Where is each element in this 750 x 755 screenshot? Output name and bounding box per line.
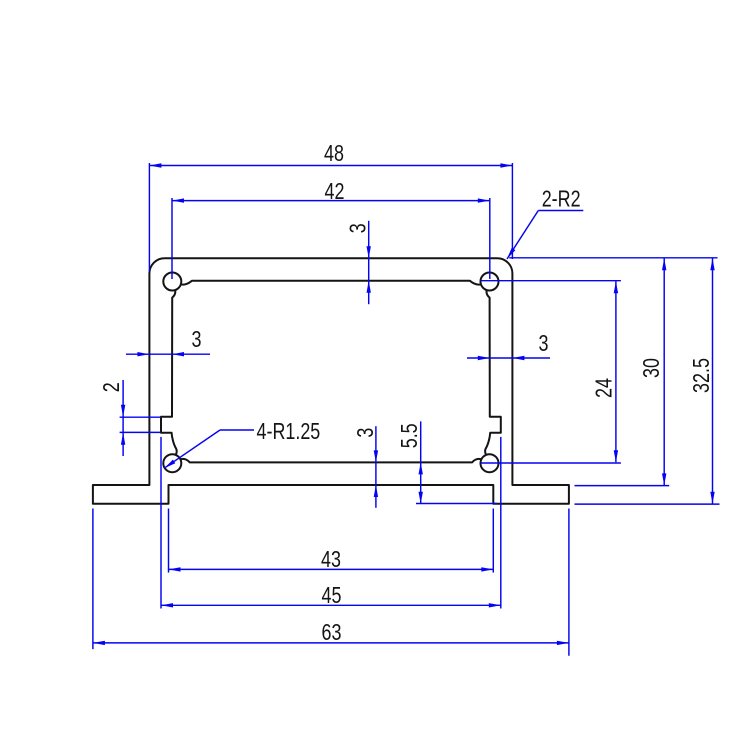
cavity top inner edge (181, 281, 481, 285)
leader 4-R1.25 boss radius callout (164, 419, 320, 468)
svg-text:48: 48 (324, 141, 344, 167)
dimension 3 right wall thickness (467, 331, 550, 360)
dimension 42 inner cavity width (172, 179, 490, 279)
dimension 45 groove span width (161, 437, 501, 609)
left inner wall with 2mm groove (161, 290, 177, 455)
right inner wall with 2mm groove (485, 290, 501, 455)
screw boss R1.25 top-right (481, 273, 499, 291)
dimension 48 top outer width (149, 141, 512, 271)
dimension 2 groove height (99, 380, 160, 456)
dimension 30 box height (509, 258, 717, 486)
dimension 63 overall width (93, 509, 569, 656)
svg-text:43: 43 (321, 547, 341, 573)
svg-text:4-R1.25: 4-R1.25 (257, 419, 321, 445)
leader 2-R2 corner radius callout (507, 186, 583, 259)
dimension 3 left wall thickness (126, 327, 210, 356)
profile outer boundary (48 wide box with 63 wide base flange) (93, 258, 569, 504)
dimension 5.5 floor height (397, 421, 497, 503)
svg-text:32.5: 32.5 (689, 358, 715, 393)
screw boss R1.25 bottom-right (481, 454, 499, 472)
screw boss R1.25 bottom-left (163, 454, 181, 472)
svg-text:3: 3 (192, 327, 202, 353)
svg-text:2: 2 (99, 382, 125, 392)
dimension 32.5 total height (575, 258, 720, 504)
svg-text:45: 45 (322, 583, 342, 609)
svg-text:2-R2: 2-R2 (542, 186, 581, 212)
svg-text:24: 24 (591, 378, 617, 398)
svg-text:63: 63 (322, 620, 342, 646)
svg-text:3: 3 (539, 331, 549, 357)
svg-text:3: 3 (353, 428, 379, 438)
dimension 43 recess width (169, 509, 494, 573)
svg-text:3: 3 (345, 223, 371, 233)
cavity floor inner edge (181, 459, 482, 462)
dimension 3 top wall thickness (345, 221, 371, 304)
dimension 3 floor thickness (353, 426, 379, 508)
svg-text:42: 42 (325, 179, 345, 205)
svg-text:30: 30 (639, 358, 665, 378)
svg-text:5.5: 5.5 (397, 423, 423, 448)
screw boss R1.25 top-left (163, 273, 181, 291)
dimension 24 inner height (481, 281, 621, 463)
